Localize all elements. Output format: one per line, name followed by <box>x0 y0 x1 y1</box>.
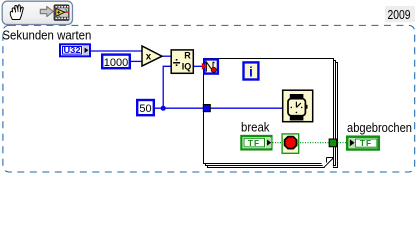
folded page corner <box>322 156 334 169</box>
boolean indicator TF (abgebrochen) <box>347 137 379 150</box>
svg-text:R: R <box>184 50 191 60</box>
svg-text:2009: 2009 <box>388 8 411 22</box>
svg-text:Sekunden warten: Sekunden warten <box>2 28 91 43</box>
selection marquee (dashed blue rounded rectangle) <box>3 25 415 172</box>
wire 50 to watch through tunnel <box>155 107 283 109</box>
green tunnel on loop border <box>329 139 337 147</box>
svg-text:IQ: IQ <box>182 61 192 71</box>
quotient-remainder node <box>171 50 193 73</box>
2009 version label <box>385 6 415 22</box>
constant 1000 <box>102 55 130 69</box>
terminal U32 (Sekunden warten control) <box>60 44 90 56</box>
while loop frame <box>204 59 334 164</box>
multiply node <box>142 46 162 66</box>
while loop frame shadow 3 <box>208 63 338 168</box>
svg-text:TF: TF <box>360 138 372 148</box>
wire multiply to QR <box>162 55 172 57</box>
loop conditional stop button <box>282 134 299 153</box>
wire QR output to wait icon <box>194 65 204 67</box>
boolean control TF (break) <box>241 136 271 149</box>
wire 1000 to multiply <box>131 60 142 62</box>
svg-text:÷: ÷ <box>173 54 181 70</box>
svg-text:abgebrochen: abgebrochen <box>347 120 412 135</box>
wait-until-next-ms-multiple icon <box>202 59 218 73</box>
svg-text:i: i <box>249 64 253 80</box>
svg-text:x: x <box>146 52 152 63</box>
svg-text:TF: TF <box>248 138 260 148</box>
svg-text:50: 50 <box>139 103 151 115</box>
wire riser junction to QR lower input <box>163 66 171 108</box>
constant 50 <box>137 100 154 115</box>
while loop frame shadow 2 <box>206 61 336 166</box>
VI film-strip icon <box>54 5 69 20</box>
wait (ms) watch icon <box>283 90 313 122</box>
tool palette tab <box>2 1 72 24</box>
blue tunnel on loop border <box>203 105 210 112</box>
wire junction dot <box>161 106 166 111</box>
svg-text:U32: U32 <box>64 46 81 55</box>
iteration terminal i <box>244 62 259 79</box>
hand tool icon <box>10 5 23 20</box>
green boolean dotted wire <box>273 142 347 144</box>
svg-text:break: break <box>241 120 270 135</box>
cursor arrow tool icon <box>40 6 53 16</box>
wire U32 to multiply <box>91 50 142 52</box>
svg-text:1000: 1000 <box>104 57 128 69</box>
